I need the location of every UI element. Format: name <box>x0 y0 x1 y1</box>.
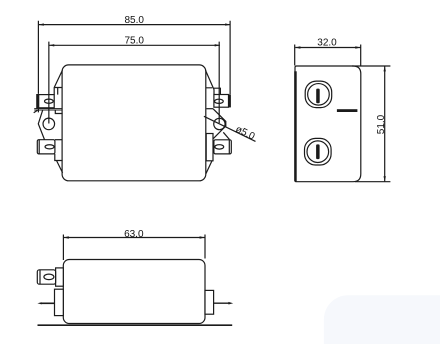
arrow 85 right <box>225 23 230 25</box>
dimension 63.0 extension lines <box>63 235 205 261</box>
svg-text:51.0: 51.0 <box>376 114 387 134</box>
left bottom spade cap line <box>38 140 40 154</box>
left flange point chamfers <box>38 110 45 141</box>
left top spade slot <box>45 99 54 103</box>
dimension 85.0 extension lines <box>38 21 230 113</box>
side view: body outline <box>295 66 361 182</box>
left mounting hole <box>43 118 55 130</box>
arrow 75 left <box>49 44 54 46</box>
dimension 63.0 line <box>64 237 205 239</box>
dimension 75.0 extension lines <box>49 42 219 124</box>
dimension 85.0 line <box>39 24 231 26</box>
right lower chamfer near leader <box>223 132 229 139</box>
ground baseline <box>38 324 233 326</box>
left top spade black tip <box>37 94 40 108</box>
arrow 63 right <box>200 236 205 238</box>
right bottom spade terminal <box>214 140 231 154</box>
screw terminal 2 slot <box>316 144 320 159</box>
arrow 75 right <box>215 44 220 46</box>
bottom view right boss <box>205 290 214 314</box>
decorative card bottom-right <box>324 295 440 344</box>
right flange block bottom edge <box>206 108 213 110</box>
bottom view: filter body <box>63 260 205 324</box>
svg-text:85.0: 85.0 <box>124 15 144 26</box>
front view: filter body <box>62 65 206 181</box>
bottom view right pin <box>214 302 230 304</box>
dimension 51.0 line <box>384 66 386 181</box>
right top spade black tip <box>228 94 231 107</box>
right mounting hole <box>214 118 225 129</box>
svg-text:32.0: 32.0 <box>317 38 337 49</box>
bottom view upper-left spade cap line <box>39 270 41 284</box>
left bottom boss top edge <box>55 139 62 141</box>
right top spade terminal <box>214 95 229 108</box>
right bottom spade slot <box>215 145 224 149</box>
right pin tip <box>228 302 233 305</box>
dimension 32.0 extension lines <box>295 45 361 66</box>
svg-text:63.0: 63.0 <box>124 229 144 240</box>
left flange step <box>55 110 62 113</box>
left bottom spade terminal <box>37 140 55 154</box>
left bottom spade slot <box>45 145 54 149</box>
arrow 51 bottom <box>384 176 386 181</box>
screw terminal 2 head <box>307 141 329 163</box>
left bottom step and chamfer <box>55 154 63 173</box>
side view flange bar <box>294 71 297 181</box>
front view left flange chamfer top <box>54 70 62 94</box>
dimension 51.0 extension lines <box>352 66 390 182</box>
front view right flange chamfer top <box>206 70 221 94</box>
front view left top spade terminal Q1 <box>37 95 54 108</box>
right top spade slot <box>215 99 224 103</box>
hole leader line <box>204 116 256 141</box>
arrow 63 left <box>64 236 69 238</box>
arrow 85 left <box>39 23 44 25</box>
bottom view upper-left boss <box>56 268 64 286</box>
side marking dash <box>337 109 358 112</box>
left pin tip <box>37 302 41 304</box>
right bottom boss block <box>206 134 213 161</box>
dimension 32.0 line <box>295 47 360 49</box>
screw terminal 1 slot <box>316 89 320 104</box>
bottom view lower-left block <box>55 289 64 315</box>
right bottom spade cap line <box>228 140 230 154</box>
arrow 32 right <box>355 46 360 48</box>
bottom view left pin <box>41 302 55 304</box>
screw terminal 2 recess <box>305 138 332 165</box>
dimension 75.0 line <box>49 44 220 46</box>
screw terminal 1 recess <box>305 81 332 108</box>
bottom view upper-left spade terminal <box>37 270 55 284</box>
left flange seat corner tick <box>34 110 38 113</box>
left flange seat double line <box>34 109 62 110</box>
right flange point chamfers <box>206 109 225 139</box>
arrow 51 top <box>384 66 386 71</box>
screw terminal 1 head <box>308 84 330 106</box>
right bottom chamfer <box>206 161 212 174</box>
bottom view upper-left spade slot <box>44 274 54 280</box>
arrow 32 left <box>295 46 300 48</box>
svg-text:75.0: 75.0 <box>124 35 144 46</box>
